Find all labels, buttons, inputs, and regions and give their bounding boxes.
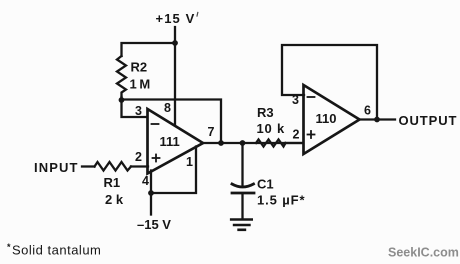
svg-text:SeekIC.com: SeekIC.com: [388, 246, 459, 260]
wire pin 1 strap to pin 4: [151, 147, 196, 194]
op-amp U1 111: [148, 109, 204, 174]
wire pin 3 stub U1: [122, 97, 149, 117]
wire C1 top lead: [241, 143, 243, 187]
svg-text:R2: R2: [131, 60, 148, 75]
svg-text:2: 2: [293, 128, 300, 142]
node U2 output: [374, 117, 380, 123]
power -15V label: [137, 217, 171, 232]
svg-text:–15 V: –15 V: [137, 217, 171, 232]
svg-text:*: *: [7, 242, 11, 252]
svg-text:1 M: 1 M: [130, 77, 151, 92]
wire feedback output to pin3 node: [122, 100, 222, 144]
svg-text:1: 1: [186, 155, 193, 169]
svg-text:2: 2: [135, 150, 142, 164]
resistor R2: [117, 56, 126, 97]
resistor R1: [95, 162, 132, 171]
svg-text:110: 110: [316, 111, 337, 126]
wire R1 to pin 2 U1: [131, 165, 148, 167]
svg-text:R3: R3: [257, 105, 274, 120]
resistor R3: [256, 140, 286, 147]
svg-text:111: 111: [160, 134, 180, 149]
power +15V label: [156, 11, 196, 26]
svg-text:7: 7: [208, 125, 215, 139]
svg-text:6: 6: [364, 104, 371, 118]
node feedback tap: [218, 140, 224, 146]
wire U2 feedback loop: [282, 45, 377, 120]
ground: [231, 220, 252, 230]
node top junction: [172, 40, 178, 46]
wire U1 output line: [203, 142, 304, 144]
wire U2 output: [360, 118, 396, 120]
wire R3 to pin 2 U2: [286, 142, 305, 144]
svg-text:8: 8: [164, 101, 171, 115]
svg-text:1.5 µF*: 1.5 µF*: [257, 193, 306, 208]
wire input lead: [82, 165, 95, 167]
capacitor C1: [232, 184, 254, 187]
svg-text:C1: C1: [257, 177, 274, 192]
svg-text:Solid tantalum: Solid tantalum: [12, 243, 101, 258]
node R2 bottom / pin3: [119, 97, 125, 103]
note solid tantalum: [7, 242, 101, 258]
op-amp U2 110: [304, 85, 360, 154]
wire C1 bottom lead: [241, 195, 243, 219]
svg-text:10 k: 10 k: [257, 121, 286, 136]
node C1 tap: [240, 140, 246, 146]
INPUT label: [34, 160, 79, 175]
wire +15V vertical to pin 8: [174, 27, 176, 127]
svg-text:2 k: 2 k: [105, 192, 124, 207]
node pin4 junction: [148, 190, 154, 196]
wire top branch to R2: [122, 43, 176, 56]
svg-text:R1: R1: [104, 175, 121, 190]
svg-text:3: 3: [135, 104, 142, 118]
svg-text:INPUT: INPUT: [34, 160, 79, 175]
svg-text:OUTPUT: OUTPUT: [399, 113, 458, 128]
wire pin 4 to -15V: [150, 171, 152, 215]
watermark SeekIC.com: [388, 246, 459, 260]
svg-text:+15 V: +15 V: [156, 11, 196, 26]
OUTPUT label: [399, 113, 458, 128]
svg-text:4: 4: [142, 174, 149, 188]
